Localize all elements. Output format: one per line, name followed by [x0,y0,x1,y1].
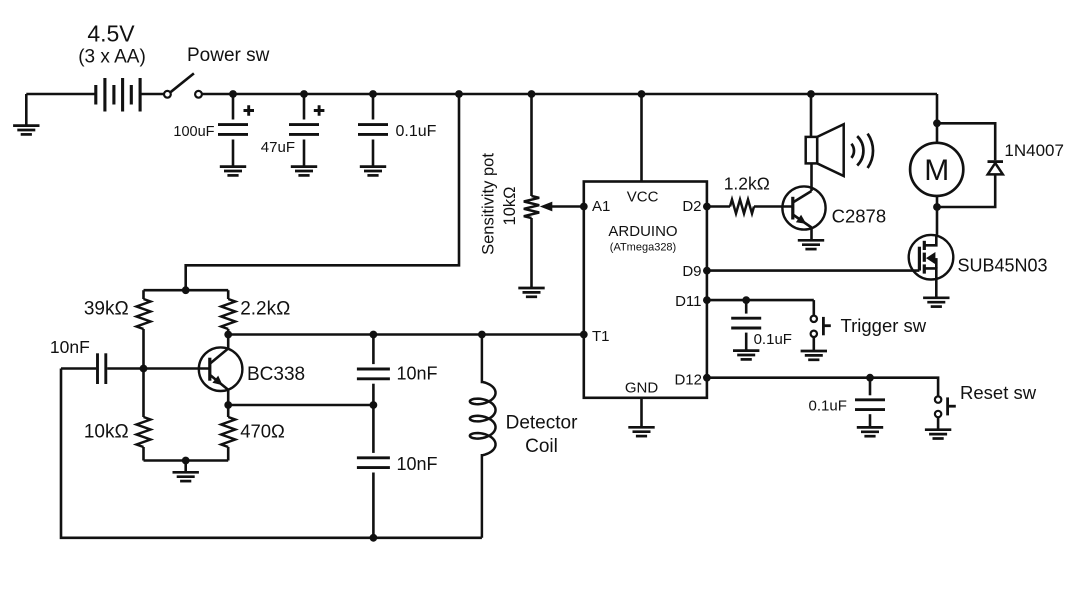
svg-text:Coil: Coil [525,436,558,457]
resistor R5 1.2k [703,174,792,214]
resistor R4 470 [221,401,285,460]
switch SW3 Reset sw [935,382,1037,429]
svg-text:(ATmega328): (ATmega328) [610,242,676,254]
svg-text:BC338: BC338 [247,364,305,385]
battery BT1 4.5V (3 x AA) [78,21,146,112]
potentiometer VR1 Sensitivity pot 10k [480,94,584,287]
svg-text:10nF: 10nF [397,363,438,383]
svg-text:Sensitivity pot: Sensitivity pot [480,153,498,255]
ground [925,430,951,439]
capacitor C7 0.1uF trigger [731,300,792,349]
svg-text:D9: D9 [682,263,701,280]
wire emitter to caps [228,401,377,409]
svg-text:2.2kΩ: 2.2kΩ [240,299,290,320]
motor M1 [910,143,963,196]
ground [518,288,544,297]
svg-text:1.2kΩ: 1.2kΩ [724,174,770,194]
svg-text:0.1uF: 0.1uF [809,398,847,415]
svg-text:10kΩ: 10kΩ [501,187,519,226]
svg-text:GND: GND [625,379,659,396]
ground [923,298,949,307]
svg-text:Trigger sw: Trigger sw [841,315,927,336]
capacitor C4 10nF coupling [50,337,210,384]
ground [798,240,824,249]
ground [13,94,39,134]
switch SW2 Trigger sw [811,300,927,350]
switch SW1 Power sw [164,45,270,98]
capacitor C3 0.1uF [358,94,437,166]
svg-text:SUB45N03: SUB45N03 [958,256,1048,276]
diode D1 1N4007 [937,123,1064,207]
capacitor C6 10nF [357,405,438,538]
capacitor C2 47uF [261,94,325,166]
svg-text:Reset sw: Reset sw [960,382,1037,403]
svg-text:ARDUINO: ARDUINO [608,223,677,240]
svg-text:470Ω: 470Ω [240,421,285,442]
ground [291,167,317,176]
svg-text:D2: D2 [682,198,701,215]
speaker LS1 [806,94,873,176]
ground GND pin [628,398,654,436]
node collector junction [224,331,232,339]
wire T1 line [228,331,587,339]
svg-text:T1: T1 [592,328,610,345]
transistor Q3 SUB45N03 mosfet [909,235,1048,297]
svg-text:1N4007: 1N4007 [1004,141,1064,160]
wire rail corner to motor [933,94,941,143]
svg-text:4.5V: 4.5V [87,21,135,47]
svg-text:D11: D11 [675,293,701,310]
transistor Q2 C2878 [782,163,886,239]
svg-text:D12: D12 [674,372,702,389]
wire motor to mosfet [933,196,941,235]
svg-text:10kΩ: 10kΩ [84,422,129,443]
wire VCC [640,94,643,182]
svg-text:0.1uF: 0.1uF [396,123,437,140]
capacitor C5 10nF [357,335,438,406]
capacitor C1 100uF [173,94,254,166]
wire supply branch to bias network [186,94,459,290]
op-amp U1 ARDUINO ATmega328 box [584,182,707,398]
ground [733,351,759,360]
inductor L1 Detector Coil [470,335,578,538]
resistor R2 2.2k [221,290,290,334]
svg-text:VCC: VCC [627,188,659,205]
ground [360,167,386,176]
node A1 [580,203,588,211]
svg-text:0.1uF: 0.1uF [754,331,792,348]
svg-text:10nF: 10nF [397,454,438,474]
svg-text:Power sw: Power sw [187,45,270,66]
wire emitter ground rail [144,457,229,472]
svg-text:M: M [924,154,949,187]
wire D9 to gate [703,267,919,275]
capacitor C8 0.1uF reset [809,378,885,427]
ground [173,472,199,481]
resistor R1 39k [84,290,151,368]
ground [220,167,246,176]
svg-text:47uF: 47uF [261,139,295,156]
wire main positive rail [202,90,937,98]
wire bias top [144,286,229,294]
ground [801,351,827,360]
wire feedback left [61,369,482,542]
svg-text:C2878: C2878 [832,206,887,227]
svg-text:39kΩ: 39kΩ [84,299,129,320]
resistor R3 10k [84,369,151,461]
svg-text:A1: A1 [592,198,610,215]
transistor Q1 BC338 [199,335,305,406]
wire [140,93,164,96]
wire D12 [703,374,938,397]
wire [26,93,96,96]
svg-text:(3 x AA): (3 x AA) [78,47,146,68]
ground [857,427,883,436]
wire D11 [703,296,814,304]
svg-text:100uF: 100uF [173,124,214,140]
svg-text:10nF: 10nF [50,337,90,357]
svg-text:Detector: Detector [506,412,578,433]
